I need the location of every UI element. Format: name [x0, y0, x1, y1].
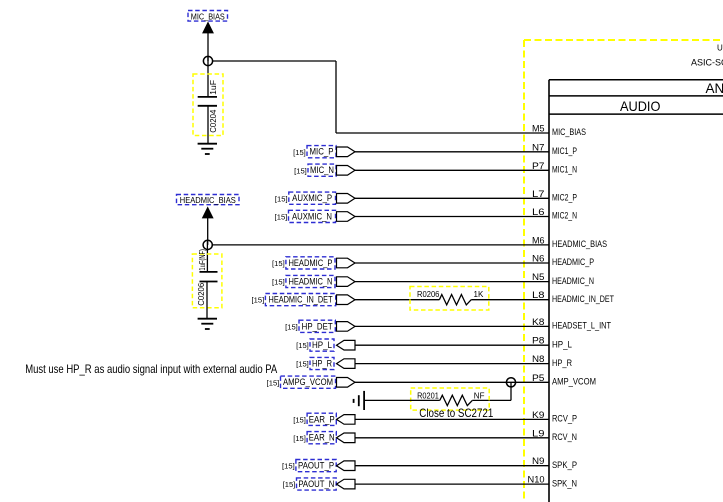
net label HEADMIC_P: [286, 257, 335, 269]
svg-text:HEADMIC_P: HEADMIC_P: [288, 258, 332, 268]
sheet-entry [15] for net HEADMIC_N: [272, 278, 285, 287]
svg-text:L6: L6: [532, 207, 545, 217]
port connector AUXMIC_N: [337, 212, 356, 222]
svg-text:HEADMIC_IN_DET: HEADMIC_IN_DET: [552, 294, 614, 304]
svg-text:L7: L7: [532, 189, 545, 199]
svg-text:MIC1_P: MIC1_P: [552, 146, 577, 156]
sheet-entry [15] for net EAR_P: [293, 415, 306, 424]
pin L8 HEADMIC_IN_DET label: [532, 290, 614, 304]
ground (HEADMIC_BIAS cap): [198, 319, 217, 329]
sheet-entry [15] for net HP_DET: [285, 322, 298, 331]
svg-text:NF: NF: [474, 392, 485, 401]
ground (left-facing, R0201): [354, 391, 365, 410]
svg-text:AUDIO: AUDIO: [620, 98, 661, 114]
svg-text:EAR_N: EAR_N: [309, 433, 335, 443]
wire y=484.1 flag to IC: [355, 483, 549, 485]
ground (MIC_BIAS cap): [198, 144, 217, 154]
net label HP_DET: [299, 320, 335, 332]
sheet-entry [15] for net EAR_N: [293, 434, 306, 443]
port connector MIC_P: [337, 147, 356, 157]
wire y=170.3 flag to IC: [355, 169, 549, 171]
net label HP_R: [310, 357, 334, 369]
resistor R0201 NF: [411, 388, 490, 410]
svg-text:MIC_BIAS: MIC_BIAS: [552, 127, 586, 137]
capacitor C0206 1uF(NF): [192, 249, 222, 308]
svg-text:[15]: [15]: [293, 148, 306, 157]
port connector HEADMIC_IN_DET: [337, 295, 356, 305]
port connector PAOUT_N: [337, 479, 356, 489]
pin N6 HEADMIC_P label: [532, 254, 594, 268]
net label HEADMIC_BIAS: [177, 195, 240, 206]
svg-text:ASIC-SC2721G: ASIC-SC2721G: [691, 58, 723, 68]
svg-text:MIC2_P: MIC2_P: [552, 193, 577, 203]
svg-text:1uF(NF): 1uF(NF): [198, 249, 207, 271]
capacitor C0204 1uF: [193, 74, 223, 136]
port connector PAOUT_P: [337, 461, 356, 471]
svg-text:L9: L9: [532, 428, 545, 438]
svg-text:[15]: [15]: [283, 480, 296, 489]
svg-text:SPK_P: SPK_P: [552, 460, 577, 470]
port connector HEADMIC_N: [337, 277, 356, 287]
svg-text:HEADMIC_BIAS: HEADMIC_BIAS: [552, 239, 607, 249]
wire y=151.8 flag to IC: [355, 151, 549, 153]
svg-text:HEADMIC_IN_DET: HEADMIC_IN_DET: [269, 295, 333, 305]
svg-text:P7: P7: [532, 161, 545, 171]
net label HP_L: [310, 339, 334, 351]
wire MIC_BIAS arrow to junction: [207, 33, 209, 61]
sheet-entry [15] for net AUXMIC_P: [275, 194, 288, 203]
svg-text:N6: N6: [532, 254, 545, 264]
svg-text:[15]: [15]: [272, 278, 285, 287]
svg-text:RCV_P: RCV_P: [552, 414, 577, 424]
sheet-entry [15] for net MIC_N: [294, 166, 307, 175]
wire y=363.6 flag to IC: [355, 363, 549, 365]
svg-text:AUXMIC_N: AUXMIC_N: [292, 211, 332, 221]
svg-text:Close to SC2721: Close to SC2721: [419, 406, 493, 420]
net label AUXMIC_N: [289, 210, 336, 222]
svg-text:1K: 1K: [474, 290, 484, 299]
junction node MIC_BIAS: [203, 56, 212, 65]
power arrow MIC_BIAS: [203, 22, 214, 33]
svg-text:MIC2_N: MIC2_N: [552, 211, 577, 221]
svg-text:SPK_N: SPK_N: [552, 478, 577, 488]
svg-text:HP_L: HP_L: [312, 340, 332, 350]
svg-text:MIC_P: MIC_P: [310, 147, 334, 157]
net label HEADMIC_IN_DET: [265, 294, 335, 306]
net label PAOUT_P: [296, 460, 336, 472]
net label MIC_P: [307, 146, 336, 158]
svg-text:ANALOG: ANALOG: [706, 81, 723, 96]
pin L6 MIC2_N label: [532, 207, 577, 221]
pin K9 RCV_P label: [532, 410, 577, 424]
svg-text:HEADMIC_N: HEADMIC_N: [288, 277, 332, 287]
svg-text:Must use HP_R as audio signal: Must use HP_R as audio signal input with…: [25, 362, 277, 376]
port connector AUXMIC_P: [337, 194, 356, 204]
wire HEADMIC_IN_DET flag to R0206: [355, 299, 439, 301]
svg-text:AMP_VCOM: AMP_VCOM: [552, 377, 596, 387]
svg-text:P5: P5: [532, 373, 545, 383]
port connector HP_L: [337, 340, 356, 350]
net label MIC_N: [308, 164, 336, 176]
wire y=345.2 flag to IC: [355, 344, 549, 346]
svg-text:[15]: [15]: [282, 462, 295, 471]
svg-text:AMPG_VCOM: AMPG_VCOM: [283, 377, 333, 387]
pin K8 HEADSET_L_INT label: [532, 317, 611, 331]
svg-text:N10: N10: [528, 475, 545, 485]
net label EAR_P: [307, 413, 336, 425]
svg-text:[15]: [15]: [252, 296, 265, 305]
sheet-entry [15] for net AUXMIC_N: [275, 213, 288, 222]
svg-text:[15]: [15]: [267, 378, 280, 387]
svg-text:HEADMIC_BIAS: HEADMIC_BIAS: [180, 195, 236, 205]
pin P7 MIC1_N label: [532, 161, 577, 175]
wire y=465.7 flag to IC: [355, 465, 549, 467]
sheet-entry [15] for net HP_L: [296, 341, 309, 350]
pin L9 RCV_N label: [532, 428, 577, 442]
refdes U0201: [717, 44, 723, 53]
sheet-entry [15] for net HP_R: [296, 360, 309, 369]
net label AUXMIC_P: [289, 192, 336, 204]
resistor R0206 1K: [410, 287, 489, 311]
svg-text:N9: N9: [532, 456, 545, 466]
pin M6 HEADMIC_BIAS label: [532, 235, 607, 249]
svg-text:[15]: [15]: [285, 322, 298, 331]
sheet-entry [15] for net PAOUT_N: [283, 480, 296, 489]
pin N10 SPK_N label: [528, 475, 578, 489]
svg-text:C0204: C0204: [209, 109, 218, 133]
note Must use HP_R as audio signal input with external audio PA: [25, 362, 277, 376]
pin N9 SPK_P label: [532, 456, 577, 470]
pin M5 MIC_BIAS label: [532, 124, 586, 138]
port connector HEADMIC_P: [337, 258, 356, 268]
port connector AMPG_VCOM: [337, 378, 356, 388]
wire y=437.8 flag to IC: [355, 437, 549, 439]
svg-text:N8: N8: [532, 354, 545, 364]
IC section title ANALOG (clipped): [706, 81, 723, 96]
svg-text:[15]: [15]: [294, 166, 307, 175]
svg-text:HEADSET_L_INT: HEADSET_L_INT: [552, 321, 611, 331]
pin L7 MIC2_P label: [532, 189, 577, 203]
pin P8 HP_L label: [532, 336, 572, 350]
wire y=198.3 flag to IC: [355, 197, 549, 199]
svg-text:HEADMIC_N: HEADMIC_N: [552, 276, 594, 286]
port connector MIC_N: [337, 166, 356, 176]
junction node HEADMIC_BIAS: [203, 240, 212, 249]
net label MIC_BIAS (top): [188, 11, 228, 22]
part name ASIC-SC2721G: [691, 58, 723, 68]
wire junction to C0204: [207, 57, 209, 97]
net label AMPG_VCOM: [281, 376, 336, 388]
sheet-entry [15] for net AMPG_VCOM: [267, 378, 280, 387]
pin N5 HEADMIC_N label: [532, 272, 594, 286]
svg-text:R0206: R0206: [417, 290, 440, 299]
sheet-entry [15] for net PAOUT_P: [282, 462, 295, 471]
svg-text:MIC1_N: MIC1_N: [552, 165, 577, 175]
svg-text:[15]: [15]: [293, 434, 306, 443]
svg-text:[15]: [15]: [296, 360, 309, 369]
svg-text:EAR_P: EAR_P: [309, 414, 335, 424]
power arrow HEADMIC_BIAS: [202, 207, 213, 218]
svg-text:AUXMIC_P: AUXMIC_P: [292, 193, 332, 203]
svg-text:U0201: U0201: [717, 44, 723, 53]
svg-text:[15]: [15]: [275, 213, 288, 222]
wire y=419.4 flag to IC: [355, 418, 549, 420]
note Close to SC2721: [419, 406, 493, 420]
op IC U0201 block outline: [549, 80, 723, 502]
svg-text:[15]: [15]: [272, 259, 285, 268]
svg-text:M6: M6: [532, 235, 545, 245]
sheet-entry [15] for net MIC_P: [293, 148, 306, 157]
svg-text:MIC_N: MIC_N: [310, 165, 334, 175]
U0201 block boundary (yellow dashed): [524, 40, 723, 502]
svg-text:HEADMIC_P: HEADMIC_P: [552, 257, 594, 267]
svg-text:PAOUT_P: PAOUT_P: [298, 461, 334, 471]
svg-text:MIC_BIAS: MIC_BIAS: [191, 11, 225, 21]
svg-text:K9: K9: [532, 410, 545, 420]
svg-text:HP_DET: HP_DET: [302, 321, 333, 331]
svg-text:PAOUT_N: PAOUT_N: [298, 479, 334, 489]
wire y=326.4 flag to IC: [355, 325, 549, 327]
wire C0206 to ground: [206, 282, 208, 319]
wire R0201 to ground: [364, 399, 440, 401]
svg-text:HP_L: HP_L: [552, 339, 572, 349]
sheet-entry [15] for net HEADMIC_IN_DET: [252, 296, 265, 305]
port connector HP_R: [337, 359, 356, 369]
wire HEADMIC_BIAS arrow to junction: [207, 218, 209, 245]
wire y=281.6 flag to IC: [355, 281, 549, 283]
net label EAR_N: [307, 432, 336, 444]
wire AMPG_VCOM flag to pin P5: [355, 381, 549, 383]
wire y=216.5 flag to IC: [355, 216, 549, 218]
port connector HP_DET: [337, 322, 356, 332]
svg-text:R0201: R0201: [417, 392, 439, 401]
svg-text:RCV_N: RCV_N: [552, 432, 577, 442]
svg-text:N7: N7: [532, 142, 545, 152]
net label PAOUT_N: [297, 478, 337, 490]
svg-text:HP_R: HP_R: [312, 359, 332, 369]
svg-text:K8: K8: [532, 317, 545, 327]
svg-text:[15]: [15]: [296, 341, 309, 350]
junction node AMP_VCOM: [506, 378, 515, 387]
IC section title AUDIO: [620, 98, 661, 114]
wire junction to C0206: [206, 241, 208, 272]
sheet-entry [15] for net HEADMIC_P: [272, 259, 285, 268]
net label HEADMIC_N: [286, 275, 335, 287]
wire AMP_VCOM junction down to R0201: [472, 382, 511, 400]
wire MIC_BIAS junction to pin M5: [212, 61, 549, 133]
svg-text:N5: N5: [532, 272, 545, 282]
pin N8 HP_R label: [532, 354, 572, 368]
wire y=263.0 flag to IC: [355, 262, 549, 264]
port connector EAR_N: [337, 433, 356, 443]
svg-text:P8: P8: [532, 336, 545, 346]
wire C0204 to ground: [207, 106, 209, 144]
svg-text:[15]: [15]: [275, 194, 288, 203]
svg-text:M5: M5: [532, 124, 545, 134]
svg-text:HP_R: HP_R: [552, 358, 572, 368]
port connector EAR_P: [337, 415, 356, 425]
pin N7 MIC1_P label: [532, 142, 577, 156]
pin P5 AMP_VCOM label: [532, 373, 596, 387]
svg-text:[15]: [15]: [293, 415, 306, 424]
svg-text:C0206: C0206: [197, 282, 206, 306]
svg-text:L8: L8: [532, 290, 545, 300]
wire R0206 to pin L8: [471, 299, 549, 301]
wire HEADMIC_BIAS junction to pin M6: [212, 244, 549, 246]
svg-text:1uF: 1uF: [209, 80, 218, 95]
